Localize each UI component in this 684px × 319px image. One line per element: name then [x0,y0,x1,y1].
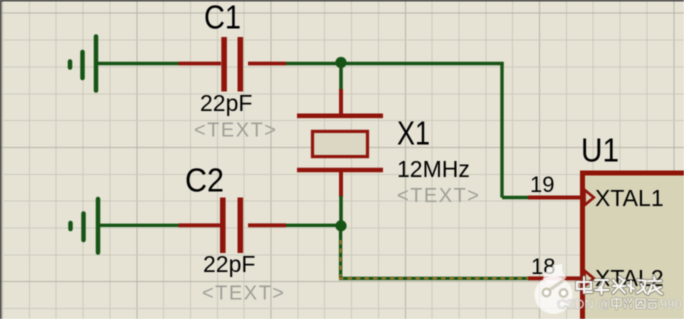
wire: bottom ground to C2 [98,224,179,227]
wire: node A stub down to crystal [339,64,343,91]
watermark caption [557,297,682,312]
pin 19 [528,196,582,200]
svg-text:22pF: 22pF [203,251,255,277]
wire: C1 to node A [286,62,341,65]
pin arrow XTAL2 [585,271,594,286]
svg-text:990: 990 [660,297,682,312]
chip U1 body [580,171,684,319]
wire: to pin 19 end [502,196,528,199]
wire: vertical drop to pin 19 [500,62,503,198]
wire: crystal bottom stub to node B [339,196,343,226]
wire: node A to right corner [341,62,504,65]
watermark logo circle [535,264,573,314]
svg-text:<TEXT>: <TEXT> [194,120,277,142]
svg-text:12MHz: 12MHz [397,156,470,182]
wire: horizontal dashed route to pin 18 [339,277,528,280]
svg-text:CSDN @: CSDN @ [557,297,611,312]
svg-text:XTAL1: XTAL1 [595,185,664,211]
ground (bottom-left) [71,199,99,253]
ground (top-left) [70,37,96,91]
wire: top ground to C1 [96,62,179,65]
svg-text:22pF: 22pF [200,90,252,116]
svg-text:C1: C1 [204,0,241,36]
pin arrow XTAL1 [585,190,594,205]
svg-text:X1: X1 [397,114,430,151]
svg-text:C2: C2 [185,162,224,199]
capacitor C1 [179,37,287,92]
svg-text:<TEXT>: <TEXT> [397,185,480,207]
crystal X1 [297,89,383,197]
frame [0,0,684,2]
svg-text:U1: U1 [581,131,619,168]
junction node A [335,57,346,68]
wire: node B down (dashed route to pin 18) [339,226,342,278]
svg-text:<TEXT>: <TEXT> [202,283,285,305]
capacitor C2 [179,198,287,254]
svg-text:19: 19 [530,172,554,197]
pin 18 [528,276,582,280]
junction node B [335,220,346,231]
watermark brand text (stylised glyph strokes) [577,277,662,294]
wire: C2 to node B [286,224,341,227]
